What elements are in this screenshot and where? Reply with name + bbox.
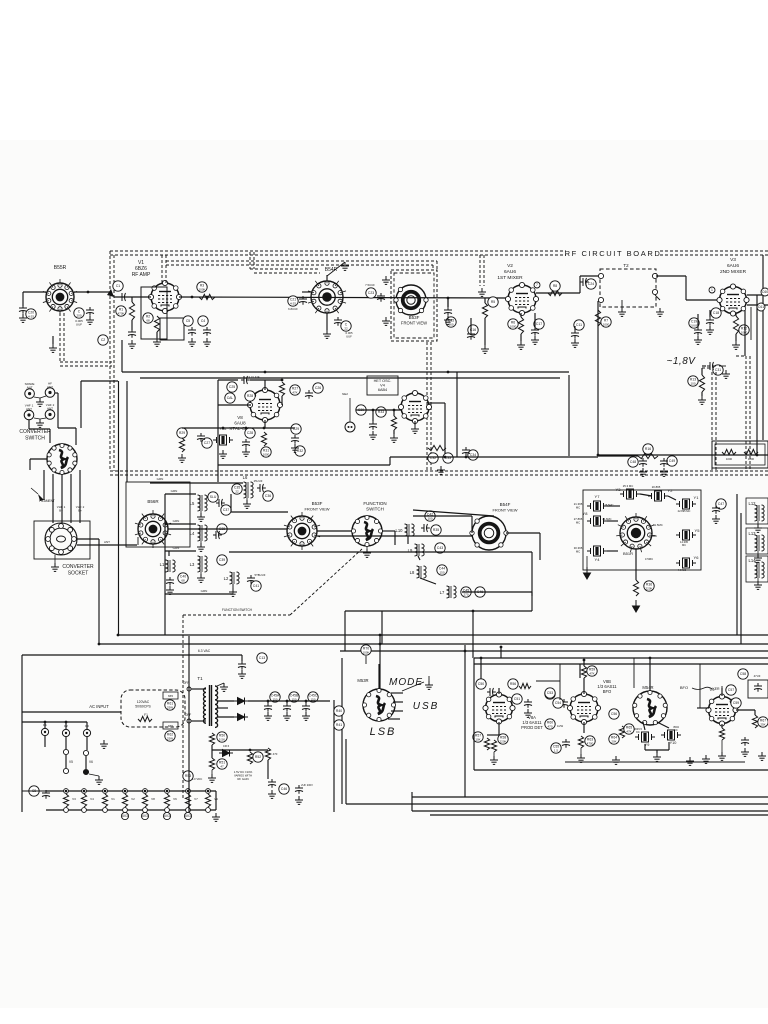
ground stub near B55R	[49, 344, 57, 352]
node NE2 lamp	[345, 422, 355, 432]
capacitor C46	[279, 784, 289, 794]
svg-text:C46: C46	[281, 787, 287, 791]
capacitor C47	[716, 499, 726, 509]
svg-text:100: 100	[690, 381, 695, 385]
resistor R66	[719, 728, 724, 740]
svg-text:Y8: Y8	[583, 511, 589, 516]
ground T1 top right	[220, 683, 228, 691]
wire mode feed	[378, 664, 380, 689]
node L12 box	[746, 498, 768, 524]
wire l7 out	[462, 591, 532, 593]
svg-text:25W: 25W	[167, 736, 173, 740]
wire V3 right leads	[747, 294, 768, 296]
svg-text:6.3 VAC: 6.3 VAC	[198, 649, 211, 653]
coil L8	[410, 566, 426, 578]
svg-text:V5: V5	[69, 760, 73, 764]
svg-text:L10: L10	[396, 528, 404, 533]
wire T1 sec leads	[217, 700, 234, 702]
wire bus y658	[474, 657, 768, 659]
svg-text:V8: V8	[237, 415, 243, 420]
svg-text:USB: USB	[413, 701, 440, 712]
capacitor C58	[738, 669, 748, 679]
svg-text:1000: 1000	[603, 322, 610, 326]
svg-text:5TBUUF: 5TBUUF	[255, 573, 266, 577]
wire dashed V1 grid shield	[161, 255, 163, 283]
ground R51	[208, 774, 216, 782]
capacitor C24	[586, 279, 596, 289]
svg-text:C61: C61	[758, 305, 764, 309]
svg-text:OFF: OFF	[183, 681, 189, 685]
resistor R12	[739, 325, 749, 335]
svg-text:C28: C28	[247, 431, 253, 435]
resistor heater string	[63, 794, 68, 807]
wire grn top	[150, 482, 243, 484]
svg-text:M54R: M54R	[642, 685, 653, 690]
wire bank out lower	[229, 551, 332, 553]
wire long y378	[140, 377, 560, 379]
ground T2 right bottom	[656, 308, 664, 316]
node V1 cathode box	[141, 287, 167, 339]
svg-text:470: 470	[273, 752, 278, 756]
wire switch drops	[52, 474, 54, 523]
svg-text:GRN: GRN	[157, 477, 164, 481]
socket B56R	[135, 510, 171, 548]
svg-text:C26: C26	[315, 386, 321, 390]
coil L12	[749, 501, 765, 521]
wire l-chain stubs	[407, 536, 409, 544]
wire switch left lead	[30, 458, 47, 460]
wire v8 bottom net	[264, 420, 266, 428]
svg-text:L6: L6	[243, 475, 248, 480]
ground below C200	[86, 316, 94, 324]
capacitor C17	[534, 319, 544, 329]
wire grn L4	[165, 523, 196, 525]
svg-text:C11: C11	[576, 323, 582, 327]
ground switch	[95, 776, 103, 784]
svg-text:SWITCH: SWITCH	[366, 507, 384, 512]
ground xtal B	[291, 444, 299, 452]
wire 63vac	[22, 654, 242, 656]
svg-text:4-25: 4-25	[28, 314, 34, 318]
capacitor C16	[468, 325, 478, 335]
capacitor C34	[468, 450, 478, 460]
node L13 box	[746, 528, 768, 554]
resistor R63	[578, 736, 583, 748]
wire right edge bus B	[762, 286, 764, 440]
svg-text:47UF: 47UF	[754, 674, 761, 678]
socket B51R	[616, 513, 656, 552]
wire v8 top feed	[218, 379, 238, 381]
switch M54R	[633, 690, 668, 725]
wire v165 drop	[164, 594, 166, 635]
svg-text:V3: V3	[72, 797, 76, 801]
wire plate bus v569	[568, 375, 570, 440]
capacitor C4	[198, 316, 208, 326]
crystal Y4	[587, 546, 607, 556]
capacitor C22	[341, 321, 351, 331]
ground V8B cathode	[577, 754, 585, 762]
node coax jack VHF2 ANT	[45, 410, 55, 420]
svg-text:150: 150	[439, 570, 444, 574]
wire ant jack bus	[81, 380, 118, 382]
tube V8B	[567, 691, 600, 724]
capacitor C11	[574, 320, 584, 330]
svg-text:V8: V8	[151, 797, 155, 801]
svg-text:5.5K: 5.5K	[219, 737, 225, 741]
wire top right verticals	[744, 310, 746, 356]
ground xtal C	[219, 450, 227, 458]
svg-text:24.6MC: 24.6MC	[602, 517, 611, 521]
svg-text:NE2: NE2	[342, 392, 348, 396]
svg-text:B55R: B55R	[54, 265, 67, 271]
svg-text:25K: 25K	[760, 722, 765, 726]
svg-text:R53: R53	[185, 774, 191, 778]
svg-text:7.0MC: 7.0MC	[649, 534, 657, 538]
diode CR4	[234, 698, 248, 705]
wire bfo out	[697, 707, 709, 709]
svg-text:L13: L13	[749, 531, 757, 536]
svg-text:10K: 10K	[475, 737, 480, 741]
resistor R60	[545, 719, 555, 729]
svg-text:47K: 47K	[626, 729, 631, 733]
wire V4 grid net	[356, 409, 401, 411]
svg-text:CONVERTER: CONVERTER	[19, 429, 51, 435]
capacitor C35	[232, 484, 242, 494]
node V9 top ref	[726, 685, 736, 695]
wire coil bank to b53f	[230, 494, 232, 512]
switch FUNCTION SWITCH	[351, 515, 382, 546]
ground det row extra	[612, 756, 620, 764]
wire V8A bottom	[498, 722, 500, 735]
svg-text:L1: L1	[160, 562, 165, 567]
wire b53f lower out	[317, 535, 472, 537]
svg-text:HET OSC.: HET OSC.	[374, 379, 392, 383]
wire top pin V1	[164, 282, 166, 284]
coil L1	[160, 560, 175, 572]
wire dashed function switch	[183, 614, 290, 616]
ground below B53F	[382, 317, 390, 325]
resistor R6	[508, 319, 518, 329]
resistor R2	[143, 313, 153, 323]
socket B53F lower	[284, 512, 320, 550]
svg-text:6V3: 6V3	[142, 814, 148, 818]
ground bank left	[584, 567, 591, 579]
wire v465 drop	[464, 645, 466, 797]
wire bus y811	[412, 810, 768, 812]
svg-text:V2: V2	[507, 263, 513, 269]
svg-text:R33: R33	[378, 410, 384, 414]
node switch V5 bottom	[63, 768, 68, 773]
svg-text:C49: C49	[669, 459, 675, 463]
svg-text:47: 47	[220, 764, 224, 768]
svg-text:20K: 20K	[611, 739, 616, 743]
wire crystal common	[644, 744, 646, 750]
node L3 trimmers	[217, 555, 227, 565]
wire mode section borders	[333, 700, 335, 812]
wire b54f net	[413, 510, 494, 516]
svg-text:R5: R5	[491, 300, 495, 304]
svg-text:220K: 220K	[499, 739, 506, 743]
capacitor C42	[425, 511, 435, 521]
svg-text:FRONT VIEW: FRONT VIEW	[492, 508, 517, 513]
svg-text:4-25: 4-25	[290, 301, 296, 305]
ground under L4	[197, 543, 205, 551]
svg-text:ANT: ANT	[27, 386, 33, 390]
wire v8a leads	[498, 688, 500, 694]
svg-text:4700: 4700	[587, 741, 594, 745]
resistor R37	[722, 449, 736, 454]
wire det box left	[473, 658, 475, 770]
tube V8	[247, 387, 282, 422]
crystal Y10	[661, 730, 681, 740]
svg-text:B54R: B54R	[325, 267, 338, 273]
svg-text:V6: V6	[173, 797, 177, 801]
svg-text:1000: 1000	[726, 457, 733, 461]
wire dashed B55R shield drop	[59, 313, 61, 362]
capacitor C23 trimmer	[366, 288, 376, 298]
svg-text:V7: V7	[194, 797, 198, 801]
resistor R28	[245, 391, 255, 401]
wire bottom left borders	[188, 636, 190, 812]
svg-text:22.895 MC: 22.895 MC	[678, 509, 691, 513]
switch converter wafer	[47, 443, 77, 474]
svg-text:F1: F1	[144, 713, 148, 717]
capacitor C33	[443, 453, 453, 463]
svg-text:B54F: B54F	[500, 502, 511, 507]
svg-text:C17: C17	[536, 322, 542, 326]
svg-text:V9: V9	[214, 797, 218, 801]
capacitor C18	[711, 308, 721, 318]
wire B51R bottom drop	[635, 549, 637, 580]
svg-text:RF GAIN: RF GAIN	[237, 777, 248, 781]
svg-text:R32: R32	[297, 449, 303, 453]
ground under B54R	[323, 330, 331, 338]
resistor R36	[644, 581, 654, 591]
wire jack feeds	[55, 392, 58, 394]
svg-text:MC: MC	[576, 521, 580, 525]
svg-text:3.5MC: 3.5MC	[645, 557, 653, 561]
wire v412	[411, 792, 413, 811]
svg-text:665: 665	[168, 694, 173, 698]
ground jacks bottom	[36, 419, 44, 427]
svg-text:Y6: Y6	[694, 555, 700, 560]
wire v218	[217, 380, 219, 482]
wire bus y644	[99, 643, 768, 645]
svg-text:L8: L8	[410, 570, 415, 575]
svg-text:C48: C48	[630, 460, 636, 464]
svg-text:C27: C27	[204, 441, 210, 445]
wire b54f right	[506, 532, 540, 534]
svg-text:L14: L14	[749, 558, 757, 563]
node pin labels V3	[709, 287, 715, 293]
svg-text:470K: 470K	[117, 311, 124, 315]
svg-text:1.5: 1.5	[554, 748, 559, 752]
wire bus y651	[340, 650, 768, 652]
svg-text:270: 270	[463, 592, 468, 596]
svg-text:120VAC: 120VAC	[137, 700, 150, 704]
coil L14	[749, 558, 765, 578]
capacitor C49	[667, 456, 677, 466]
capacitor C5	[183, 316, 193, 326]
resistor R54	[265, 748, 270, 760]
svg-text:6V3: 6V3	[122, 814, 128, 818]
wire bank wiring	[607, 505, 620, 507]
node det box junctions	[480, 657, 483, 660]
svg-text:1ST MIXER: 1ST MIXER	[497, 275, 523, 281]
svg-text:L12: L12	[749, 501, 757, 506]
wire v2 plate resistor	[548, 290, 562, 295]
wire bus y465	[218, 464, 390, 466]
capacitor C27	[202, 438, 212, 448]
switch M53R	[362, 688, 395, 721]
capacitor C44	[437, 565, 447, 575]
ground bottom right row	[702, 755, 710, 763]
wire det verticals	[579, 664, 581, 678]
svg-text:L3: L3	[190, 562, 195, 567]
svg-text:OFF: OFF	[185, 713, 191, 717]
crystal Y2	[648, 491, 668, 501]
capacitor C8 body	[42, 790, 50, 799]
node HET OSC label box	[367, 376, 398, 395]
wire right edge bus A	[756, 313, 758, 455]
svg-text:47K: 47K	[292, 390, 297, 394]
capacitor C2	[98, 335, 108, 345]
wire prong bus	[44, 736, 46, 747]
wire funcsw right	[382, 530, 395, 532]
svg-text:R41: R41	[336, 723, 342, 727]
svg-text:FRONT VIEW: FRONT VIEW	[401, 321, 427, 326]
ground above B53F	[382, 276, 390, 284]
svg-text:Y4: Y4	[595, 557, 601, 562]
svg-text:MC: MC	[576, 550, 580, 554]
svg-text:C60: C60	[762, 290, 768, 294]
capacitor C26	[313, 383, 323, 393]
ground under R12	[732, 341, 740, 349]
svg-text:C36: C36	[265, 494, 271, 498]
svg-text:KC: KC	[674, 728, 678, 732]
ground bank arrow	[633, 600, 640, 612]
svg-text:R52: R52	[255, 755, 261, 759]
ground under C11	[571, 339, 579, 347]
svg-text:R16: R16	[645, 447, 651, 451]
crystal Y7	[587, 501, 607, 511]
wire v569 to bus	[568, 440, 570, 456]
wire V4 plate	[429, 402, 445, 404]
svg-text:2ND MIXER: 2ND MIXER	[720, 269, 747, 275]
capacitor C13	[257, 653, 267, 663]
svg-text:2UUF: 2UUF	[690, 323, 698, 327]
resistor R16	[643, 444, 653, 454]
ground xtal A	[242, 448, 250, 456]
node junction v8	[281, 379, 284, 382]
svg-text:M53R: M53R	[357, 678, 368, 683]
svg-text:T1: T1	[197, 676, 203, 681]
wire mode arrow	[402, 682, 424, 691]
wire m54r top	[649, 658, 651, 691]
wire lbank verticals	[168, 551, 170, 556]
node top right component box	[712, 441, 768, 468]
wire v9 top lead	[721, 688, 723, 696]
wire right edge top verticals	[756, 295, 758, 313]
capacitor C1	[113, 281, 123, 291]
resistor R58	[498, 734, 508, 744]
wire det top links	[536, 680, 560, 682]
svg-text:C51: C51	[514, 697, 520, 701]
svg-text:R40: R40	[336, 709, 342, 713]
wire det inner verticals	[559, 664, 561, 700]
node right box	[748, 680, 768, 698]
capacitor C28	[245, 428, 255, 438]
svg-text:BFO: BFO	[603, 689, 612, 694]
node plug prong P1	[41, 728, 48, 735]
wire v8b bottom lead	[583, 722, 585, 733]
node T2 dashed box	[600, 269, 656, 307]
node heater lower refs	[121, 812, 128, 819]
svg-text:R35: R35	[433, 528, 439, 532]
resistor R65	[619, 726, 624, 738]
node antenna arrow	[107, 289, 114, 297]
capacitor C15	[446, 317, 456, 327]
node L4 trimmers	[217, 524, 227, 534]
coil L7	[440, 586, 456, 598]
node plug prong F2	[62, 729, 69, 736]
svg-text:RF CIRCUIT BOARD: RF CIRCUIT BOARD	[565, 249, 662, 258]
wire grn L3	[165, 550, 196, 552]
svg-text:CR 6: CR 6	[223, 744, 230, 748]
wire socket to bus	[77, 538, 99, 540]
wire screen bus v598	[597, 301, 599, 455]
node coax jack HF ANT	[45, 388, 55, 398]
svg-text:1000: 1000	[741, 330, 748, 334]
wire heater rail bottom	[46, 809, 216, 811]
svg-text:R8: R8	[553, 284, 557, 288]
ground under R13	[698, 396, 706, 404]
wire v346	[345, 739, 347, 804]
ground row A	[437, 466, 445, 474]
transformer T1 body	[203, 685, 217, 727]
ground V9	[718, 752, 726, 760]
capacitor C45A	[270, 692, 280, 702]
svg-text:V3: V3	[730, 257, 736, 263]
wire r8 ref	[550, 281, 560, 291]
tube V3	[717, 284, 749, 316]
ground under R5	[481, 345, 489, 353]
node plug prong F3	[83, 729, 90, 736]
wire V9 leads	[736, 709, 755, 711]
svg-text:1000: 1000	[748, 457, 755, 461]
resistor R70	[361, 645, 371, 655]
wire B+ bus	[248, 700, 330, 702]
svg-text:C58: C58	[740, 672, 746, 676]
ground T2 bottom	[618, 308, 626, 316]
node converter socket box	[34, 521, 90, 559]
socket B55R	[43, 279, 77, 315]
svg-text:GRN: GRN	[173, 519, 180, 523]
capacitor C45B	[289, 692, 299, 702]
wire right box outer	[736, 494, 738, 619]
svg-text:C4: C4	[201, 319, 205, 323]
resistor R40	[334, 706, 344, 716]
svg-text:C31: C31	[715, 368, 721, 372]
svg-text:MC: MC	[576, 506, 580, 510]
crystal Y9	[635, 732, 655, 742]
wire heater rail top	[46, 790, 216, 792]
tube V2	[505, 282, 538, 315]
diode CR5	[234, 714, 248, 721]
wire ps links	[211, 745, 213, 758]
ground xtal D	[178, 454, 186, 462]
svg-text:Y2: Y2	[668, 488, 674, 493]
